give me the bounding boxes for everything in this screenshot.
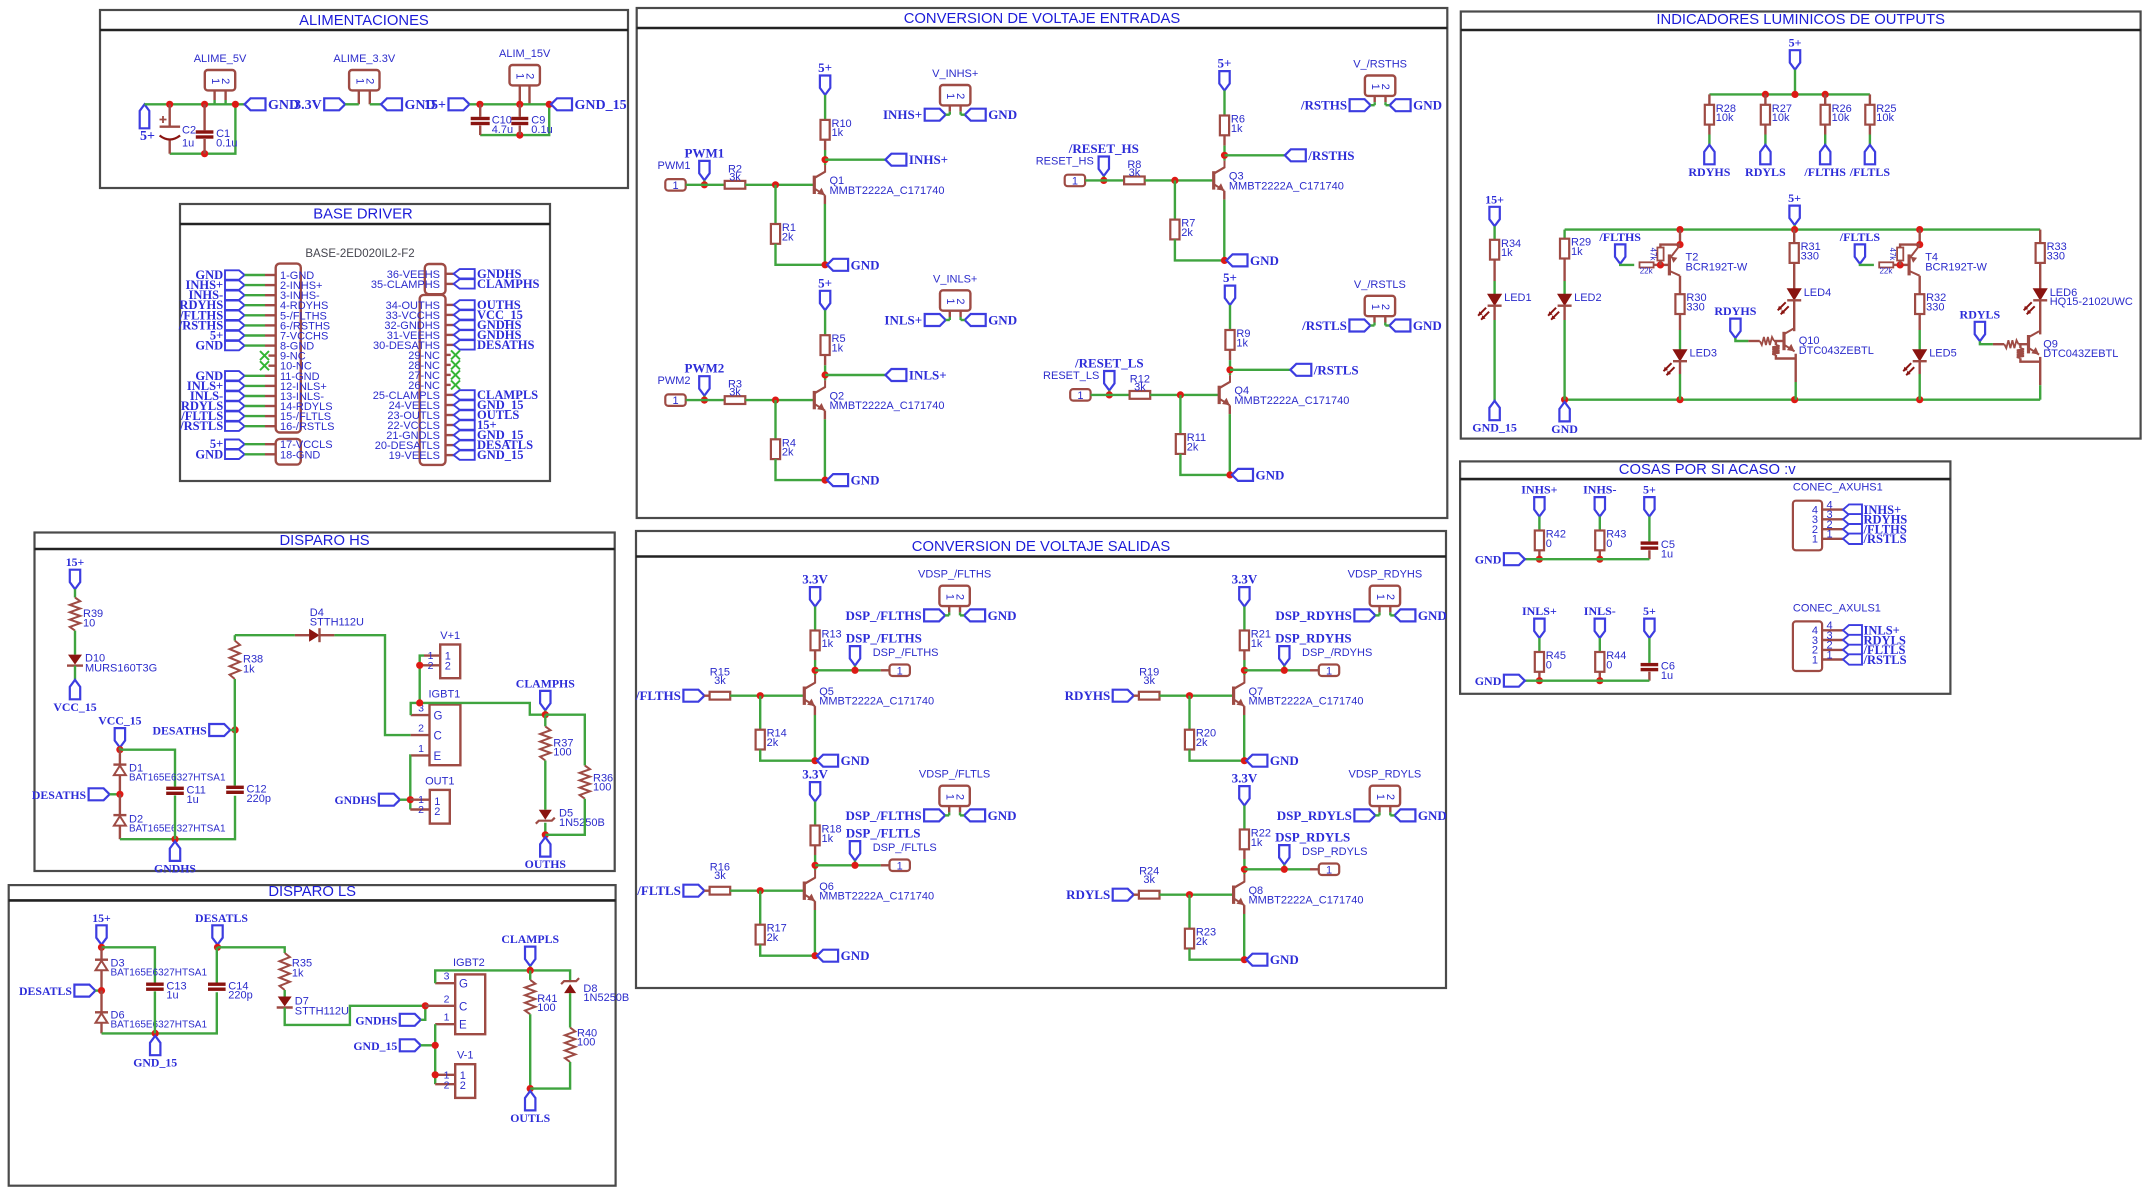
svg-text:100: 100 (537, 1002, 555, 1014)
svg-text:OUT1: OUT1 (425, 775, 454, 787)
svg-text:PWM2: PWM2 (685, 361, 725, 376)
svg-text:10: 10 (83, 618, 95, 630)
svg-text:1k: 1k (822, 638, 834, 650)
wire 3.3V to R18 (814, 802, 816, 826)
svg-text:GND: GND (1551, 422, 1578, 436)
pin 7-VCCHS (225, 331, 245, 340)
svg-text:2: 2 (954, 298, 966, 304)
junction dot divider (Q4) (1177, 391, 1184, 398)
svg-text:330: 330 (1686, 302, 1704, 314)
base resistor zigzag (Q10) (1748, 340, 1759, 342)
LED1 (1488, 294, 1501, 305)
svg-text:2: 2 (444, 993, 450, 1005)
svg-text:GND_15: GND_15 (477, 448, 524, 462)
svg-text:GNDHS: GNDHS (355, 1013, 397, 1027)
svg-text:35-CLAMPHS: 35-CLAMPHS (371, 279, 440, 291)
supply flag 5+ (140, 104, 150, 128)
section box INDICADORES LUMINICOS DE OUTPUTS (1461, 12, 2141, 439)
zener diode D8 (561, 978, 579, 984)
connector V-1 (455, 1064, 475, 1098)
label flag GND (C6) (1504, 675, 1525, 687)
svg-text:BCR192T-W: BCR192T-W (1686, 261, 1748, 273)
svg-text:3k: 3k (729, 387, 741, 399)
wire 3.3V (345, 103, 359, 105)
resistor R17 (759, 891, 761, 925)
resistor 22k (T4) (1879, 262, 1893, 267)
svg-text:DSP_/FLTLS: DSP_/FLTLS (846, 826, 921, 841)
collector lead (Q7) (1243, 650, 1245, 660)
diode D2 (119, 794, 121, 815)
svg-text:1: 1 (672, 395, 678, 407)
svg-text:1: 1 (897, 860, 903, 872)
svg-text:1k: 1k (1231, 123, 1243, 135)
collector lead (Q4) (1229, 350, 1231, 360)
svg-text:E: E (434, 751, 442, 763)
svg-text:VDSP_RDYLS: VDSP_RDYLS (1349, 769, 1422, 781)
wire rail to R33 (2039, 230, 2041, 244)
pin 18-GND (225, 450, 245, 459)
svg-text:GND: GND (195, 339, 223, 353)
resistor R14 (759, 696, 761, 730)
IGBT1 body (430, 705, 461, 766)
svg-text:GND: GND (988, 107, 1017, 122)
wire 5+ to R5 (824, 310, 826, 335)
svg-text:/RESET_LS: /RESET_LS (1074, 356, 1144, 371)
pin stubs V_INHS+ (949, 105, 951, 112)
svg-text:2: 2 (954, 93, 966, 99)
supply flag INHS+ (1534, 497, 1544, 516)
wire R25 to flag (1869, 125, 1871, 135)
junction dot collector (Q1) (822, 156, 829, 163)
svg-text:1u: 1u (1661, 670, 1673, 682)
connector OUT1 (430, 790, 450, 824)
supply flag OUTHS (540, 837, 550, 856)
label flag GND (V_/RSTHS) (1390, 99, 1411, 111)
supply flag GNDHS (170, 842, 180, 861)
svg-text:ALIM_15V: ALIM_15V (499, 48, 551, 60)
wire 3.3V to R22 (1243, 806, 1245, 830)
pin 16-/RSTLS (225, 422, 245, 431)
svg-text:GND: GND (1270, 952, 1299, 967)
supply flag 5+ (Q3) (1219, 71, 1229, 90)
junction dot GNDHS LS (422, 1002, 429, 1009)
resistor R25 (1869, 94, 1871, 104)
transistor T2 (1668, 254, 1671, 275)
svg-text:DTC043ZEBTL: DTC043ZEBTL (1799, 345, 1874, 357)
svg-text:1u: 1u (182, 138, 194, 150)
wire INHS- to R43 (1599, 517, 1601, 531)
label flag GND (V_INHS+) (965, 109, 986, 121)
junction dot base input (Q4) (1106, 391, 1113, 398)
connector V_INHS+ (940, 85, 970, 105)
svg-text:2: 2 (954, 594, 966, 600)
wire pullup bus (1709, 93, 1870, 95)
junction dot divider (Q3) (1171, 177, 1178, 184)
wire R29 to LED2 (1563, 259, 1565, 282)
svg-text:INHS+: INHS+ (1521, 483, 1557, 497)
svg-text:2: 2 (1379, 304, 1391, 310)
transistor Q1 (813, 176, 816, 194)
pin 4 INLS+ (CONEC_AXULS1) (1822, 629, 1843, 631)
collector lead (Q5) (814, 650, 816, 660)
svg-text:5+: 5+ (818, 60, 832, 75)
pin 27-NC (446, 374, 451, 376)
label flag GNDHS LS (400, 1014, 421, 1026)
wire 15+ to R39 (74, 589, 76, 597)
junction dot OUT1 (407, 796, 414, 803)
label flag GND (Q4) (1232, 469, 1253, 481)
pin 14-RDYLS (225, 401, 245, 410)
svg-text:PWM1: PWM1 (685, 145, 725, 160)
pin stubs ALIME_3.3V (358, 90, 360, 104)
resistor R3 (725, 396, 746, 404)
label flag GND (V_INLS+) (965, 314, 986, 326)
pin 1-GND (225, 270, 245, 279)
junction dot divider (Q1) (772, 181, 779, 188)
junction dot GND (Q1) (822, 261, 829, 268)
label flag GND (VDSP_/FLTHS) (964, 609, 985, 621)
wire INLS- to R44 (1599, 638, 1601, 652)
label flag GNDHS 2 (379, 794, 400, 806)
supply flag VCC_15 (70, 680, 80, 699)
svg-text:2: 2 (460, 1080, 466, 1092)
lead 22k to base (T2) (1654, 264, 1670, 266)
junction dot base (T4) (1897, 261, 1904, 268)
LED LED5 (1913, 350, 1926, 361)
svg-text:STTH112U: STTH112U (310, 617, 364, 629)
supply flag 3.3V (Q6) (810, 782, 820, 801)
svg-text:3.3V: 3.3V (802, 767, 828, 782)
resistor R37 (544, 715, 546, 727)
pin connector DSP_/RDYHS (Q7) (1319, 665, 1339, 677)
wire 15+ to C13 (102, 947, 155, 982)
svg-text:INLS+: INLS+ (884, 313, 922, 328)
svg-text:ALIMENTACIONES: ALIMENTACIONES (299, 13, 429, 29)
transistor Q8 (1232, 886, 1235, 904)
svg-text:LED2: LED2 (1574, 292, 1602, 304)
diode D4 (295, 634, 309, 636)
pin 31-VEEHS (446, 334, 454, 336)
svg-text:5+: 5+ (1643, 483, 1656, 497)
wire LED3 to GND rail (1679, 361, 1681, 374)
resistor R30 (1675, 294, 1684, 314)
resistor R5 (821, 335, 830, 355)
svg-text:0: 0 (1606, 659, 1612, 671)
supply flag 5+ (C6) (1644, 619, 1654, 638)
pin 23-OUTLS (446, 414, 454, 416)
pin 36-VEEHS (446, 273, 454, 275)
wire R37 to D5 (544, 761, 546, 810)
junction dot GND (Q2) (822, 477, 829, 484)
pin 15-/FLTLS (225, 411, 245, 420)
svg-text:1u: 1u (1661, 549, 1673, 561)
resistor R12 (1130, 391, 1151, 399)
supply flag RDYHS (1704, 145, 1714, 164)
svg-text:DESATLS: DESATLS (195, 911, 248, 925)
collector lead (Q8) (1243, 849, 1245, 859)
wire R40 to OUTLS node (530, 1062, 570, 1089)
wire to output pin (Q8) (1244, 868, 1310, 870)
svg-text:0.1u: 0.1u (531, 124, 552, 136)
transistor Q5 (803, 687, 806, 705)
svg-text:/FLTLS: /FLTLS (636, 883, 681, 898)
junction dots LED rail (1676, 226, 1683, 233)
svg-text:/FLTHS: /FLTHS (1803, 165, 1846, 179)
svg-text:5+: 5+ (1218, 56, 1232, 71)
connector ALIME_3.3V (349, 70, 379, 90)
pin 26-NC (446, 384, 451, 386)
supply flag PWM2 (699, 376, 709, 395)
supply flag DSP_RDYLS (Q8) (1279, 845, 1289, 864)
svg-text:1k: 1k (1571, 246, 1583, 258)
svg-text:18-GND: 18-GND (280, 449, 320, 461)
svg-text:47k: 47k (1888, 248, 1897, 262)
svg-text:GND: GND (988, 313, 1017, 328)
svg-text:1u: 1u (187, 794, 199, 806)
wire pin to R2 (686, 184, 725, 186)
svg-text:BASE DRIVER: BASE DRIVER (313, 207, 413, 223)
wire to /RSTLS (1230, 369, 1290, 371)
svg-text:DTC043ZEBTL: DTC043ZEBTL (2043, 348, 2118, 360)
svg-text:BAT165E6327HTSA1: BAT165E6327HTSA1 (129, 773, 226, 784)
wire right branch down (170, 104, 236, 153)
supply flag 5+ (Q2) (820, 291, 830, 310)
svg-text:VCC_15: VCC_15 (53, 700, 96, 714)
junction dot CLAMPHS (542, 711, 549, 718)
wire rail to R29 (1563, 230, 1565, 239)
svg-text:INLS+: INLS+ (1522, 604, 1557, 618)
svg-text:GND: GND (1256, 467, 1285, 482)
supply flag DESATLS top (212, 925, 222, 944)
IC body right pins 36-35 (425, 264, 446, 294)
pin connector DSP_/FLTLS (Q6) (890, 860, 910, 872)
resistor R31 (1790, 243, 1799, 263)
svg-text:PWM1: PWM1 (658, 160, 691, 172)
wire 3.3V to R21 (1243, 607, 1245, 631)
wire pin to R12 (1091, 394, 1130, 396)
svg-text:2: 2 (1384, 594, 1396, 600)
pin 29-NC (446, 354, 451, 356)
junction dot collector (Q5) (812, 667, 819, 674)
svg-text:1k: 1k (832, 127, 844, 139)
junction dot divider (Q6) (757, 887, 764, 894)
junction dot divider (Q8) (1186, 891, 1193, 898)
wire LED5 to GND rail (1918, 361, 1920, 374)
svg-text:1: 1 (444, 1012, 450, 1024)
wire to GND (370, 103, 381, 105)
svg-text:1k: 1k (1236, 337, 1248, 349)
svg-text:1: 1 (672, 180, 678, 192)
svg-text:INHS+: INHS+ (909, 152, 948, 167)
junction dot DESATLS top (214, 944, 221, 951)
resistor R33 (2036, 243, 2045, 263)
wire R32 to LED5 (1918, 314, 1920, 330)
wire collector T4 (1918, 276, 1920, 295)
wire VCC_15 to C11 (119, 748, 121, 750)
label flag /FLTLS (683, 885, 704, 897)
supply flag 5+ (C5) (1644, 497, 1654, 516)
pin connector PWM2 (665, 394, 685, 406)
svg-text:2k: 2k (782, 447, 794, 459)
IC body left pins 17-18 (276, 439, 301, 465)
wire LED4 to Q10 collector (1793, 300, 1795, 331)
svg-text:16-/RSTLS: 16-/RSTLS (280, 421, 334, 433)
pin stubs V_/RSTHS (1373, 96, 1375, 103)
svg-text:3k: 3k (729, 171, 741, 183)
pin 24-VEELS (446, 404, 454, 406)
svg-text:V-1: V-1 (457, 1050, 474, 1062)
pin connector RESET_LS (1070, 389, 1090, 401)
supply flag DSP_/FLTHS (Q5) (850, 646, 860, 665)
supply flag OUTLS (525, 1091, 535, 1110)
svg-text:15+: 15+ (92, 911, 111, 925)
connector ALIME_5V (205, 70, 235, 90)
svg-text:1k: 1k (822, 833, 834, 845)
svg-text:DSP_RDYLS: DSP_RDYLS (1302, 846, 1367, 858)
svg-text:1: 1 (897, 665, 903, 677)
wire R27 to flag (1764, 125, 1766, 135)
resistor R35 (280, 953, 290, 990)
supply flag /RESET_HS (1099, 157, 1109, 176)
pin 2 /FLTHS (CONEC_AXUHS1) (1822, 528, 1843, 530)
svg-text:MMBT2222A_C171740: MMBT2222A_C171740 (819, 891, 934, 903)
svg-text:2: 2 (444, 1079, 450, 1091)
svg-text:/RSTHS: /RSTHS (1300, 98, 1347, 113)
connector ALIM_15V (510, 65, 540, 85)
supply flag 5+ (Q4) (1225, 286, 1235, 305)
pin 4 INHS+ (CONEC_AXUHS1) (1822, 508, 1843, 510)
svg-text:OUTLS: OUTLS (510, 1111, 550, 1125)
svg-text:GND: GND (841, 948, 870, 963)
svg-text:DESATHS: DESATHS (152, 724, 207, 738)
wire R3 to base (745, 399, 814, 401)
IGBT2 pins (435, 982, 455, 984)
supply flag 15+ (70, 570, 80, 589)
pin stubs ALIME_5V (213, 90, 215, 100)
svg-text:/RSTHS: /RSTHS (1307, 148, 1354, 163)
collector lead (Q2) (824, 355, 826, 365)
wire RDYLS to base resistor (1980, 341, 1993, 344)
svg-text:CLAMPHS: CLAMPHS (516, 676, 575, 690)
label flag GND (Q5) (817, 755, 838, 767)
svg-text:RDYLS: RDYLS (1745, 165, 1786, 179)
label flag INHS+ (V_INHS+) (925, 109, 946, 121)
svg-text:DESATLS: DESATLS (19, 984, 72, 998)
wire emitter down (434, 1024, 436, 1084)
LED LED4 (1788, 289, 1801, 300)
collector lead (Q3) (1223, 135, 1225, 145)
label flag /FLTHS (683, 690, 704, 702)
section box CONVERSION DE VOLTAJE ENTRADAS (637, 8, 1448, 518)
emitter wire (Q5) (814, 706, 816, 715)
diode D6 (100, 991, 102, 1013)
junction dot R43 (1596, 556, 1603, 563)
pin connector RESET_HS (1065, 175, 1085, 187)
transistor Q4 (1218, 386, 1221, 404)
svg-text:15+: 15+ (424, 98, 446, 113)
svg-text:2: 2 (524, 73, 536, 79)
svg-text:2: 2 (428, 660, 434, 672)
E-B resistor zigzag (Q10) (1772, 345, 1779, 355)
pin 6-/RSTHS (225, 321, 245, 330)
wire pin to R3 (686, 399, 725, 401)
pin 20-DESATLS (446, 444, 454, 446)
svg-text:2: 2 (1384, 794, 1396, 800)
svg-text:3.3V: 3.3V (294, 98, 322, 113)
resistor R18 (811, 826, 820, 846)
wire R8 to base (1145, 179, 1214, 181)
junction dot GNDHS (171, 836, 178, 843)
svg-text:10k: 10k (1716, 112, 1734, 124)
svg-text:100: 100 (593, 782, 611, 794)
LED LED6 (2034, 289, 2047, 300)
junction dot GND (Q6) (812, 952, 819, 959)
resistor R20 (1188, 696, 1190, 730)
svg-text:RDYHS: RDYHS (1688, 165, 1730, 179)
svg-text:IGBT2: IGBT2 (453, 957, 485, 969)
emitter wire (Q6) (814, 901, 816, 910)
wire 5+ to R10 (824, 95, 826, 120)
svg-text:1k: 1k (1251, 638, 1263, 650)
wire R33 to LED6 (2039, 263, 2041, 289)
svg-text:1k: 1k (1501, 247, 1513, 259)
svg-text:1: 1 (1827, 529, 1833, 541)
svg-text:1N5250B: 1N5250B (583, 992, 629, 1004)
svg-text:DSP_RDYLS: DSP_RDYLS (1277, 808, 1352, 823)
svg-text:MMBT2222A_C171740: MMBT2222A_C171740 (830, 400, 945, 412)
section box BASE DRIVER (180, 204, 550, 481)
pin 3-INHS- (225, 291, 245, 300)
svg-text:DESATHS: DESATHS (32, 788, 87, 802)
svg-text:3k: 3k (1143, 874, 1155, 886)
svg-text:220p: 220p (228, 990, 252, 1002)
label flag /RSTLS (1290, 364, 1311, 376)
transistor Q10 (1782, 332, 1785, 350)
svg-text:1: 1 (1072, 175, 1078, 187)
svg-text:INHS+: INHS+ (883, 107, 922, 122)
svg-text:/RSTLS: /RSTLS (1863, 653, 1907, 667)
supply flag /FLTLS (1865, 145, 1875, 164)
supply flag DSP_RDYHS (Q7) (1279, 646, 1289, 665)
label flag GND (Q7) (1246, 755, 1267, 767)
pin stubs ALIM_15V (519, 85, 521, 104)
transistor Q3 (1212, 171, 1215, 189)
supply flag INLS- (1595, 619, 1605, 638)
svg-text:1: 1 (1077, 390, 1083, 402)
label flag GND (VDSP_RDYLS) (1394, 809, 1415, 821)
connector V_INLS+ (940, 290, 970, 310)
pin 19-VEELS (446, 454, 454, 456)
svg-text:3k: 3k (1134, 381, 1146, 393)
svg-text:VDSP_RDYHS: VDSP_RDYHS (1348, 569, 1423, 581)
resistor R43 (1595, 531, 1604, 551)
wire right side down (480, 104, 549, 135)
wire rail to T2 emitter (1679, 230, 1681, 246)
diode D10 (68, 655, 82, 665)
svg-text:5+: 5+ (1788, 191, 1801, 205)
label flag DESATHS (2) (209, 724, 230, 736)
svg-text:BASE-2ED020IL2-F2: BASE-2ED020IL2-F2 (305, 248, 414, 260)
resistor R24 (1134, 894, 1139, 896)
emitter wire (Q8) (1243, 905, 1245, 914)
label flag /RSTHS (V_/RSTHS) (1350, 99, 1371, 111)
svg-text:C2: C2 (182, 125, 196, 137)
svg-text:CONVERSION DE VOLTAJE SALIDAS: CONVERSION DE VOLTAJE SALIDAS (912, 539, 1171, 555)
wire 3.3V to R13 (814, 607, 816, 631)
svg-text:DSP_/FLTHS: DSP_/FLTHS (845, 608, 921, 623)
svg-text:0: 0 (1606, 538, 1612, 550)
pin 25-CLAMPLS (446, 394, 454, 396)
